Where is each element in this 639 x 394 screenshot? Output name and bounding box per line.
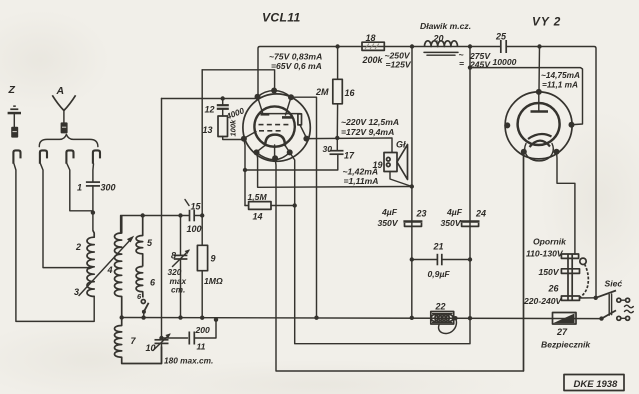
value 320 max cm xyxy=(168,267,187,295)
junction x470 on bus xyxy=(468,316,472,320)
svg-text:~14,75mA: ~14,75mA xyxy=(541,70,580,80)
svg-text:Opornik: Opornik xyxy=(533,237,567,247)
tube VCL11 grid dashes row2 xyxy=(259,130,281,132)
tube VY2 inner bulb xyxy=(518,103,560,145)
label 15 with tick xyxy=(185,200,202,212)
capacitor C23 xyxy=(403,222,422,227)
svg-text:19: 19 xyxy=(373,160,383,170)
earth symbol Z xyxy=(8,105,21,127)
tube VCL11 pin bottom-center xyxy=(272,155,278,161)
junction cap17 top xyxy=(335,136,339,140)
svg-text:350V: 350V xyxy=(378,218,399,228)
svg-text:10: 10 xyxy=(146,343,156,353)
svg-text:=65V 0,6 mA: =65V 0,6 mA xyxy=(271,61,322,71)
wire screen pin to right vertical xyxy=(291,97,317,317)
tube VCL11 inner bulb xyxy=(254,106,294,146)
tube VCL11 envelope outer xyxy=(243,94,310,161)
junction below C1 xyxy=(91,210,95,214)
capacitor C12 xyxy=(217,99,229,117)
svg-text:100k: 100k xyxy=(229,119,238,137)
junction VY2 anode top xyxy=(537,44,541,48)
junction resistor 16 top xyxy=(335,44,339,48)
tuning coil (tapped) left column xyxy=(115,216,122,318)
tube VY2 pin right xyxy=(569,122,575,128)
socket 4 xyxy=(93,150,100,163)
junction coil7 top on bus xyxy=(120,315,124,319)
tube VY2 pin top xyxy=(536,89,542,95)
svg-text:27: 27 xyxy=(556,327,568,337)
grid feed vertical wire xyxy=(161,99,163,340)
junction speaker bottom on x412 xyxy=(410,184,414,188)
svg-text:2M: 2M xyxy=(315,87,329,97)
tube VCL11 pentode anode bar xyxy=(282,116,292,119)
speaker bottom lead xyxy=(390,172,412,187)
tube VCL11 top pin connector arc xyxy=(258,91,292,98)
plug of earth lead xyxy=(11,127,18,138)
svg-text:4µF: 4µF xyxy=(381,207,398,217)
resistor R16 xyxy=(333,47,343,138)
main chassis bus wire xyxy=(122,318,602,319)
wire pentode pin down to row y344 xyxy=(290,47,470,344)
tube VY2 anode bar xyxy=(531,92,549,112)
capacitor C1 xyxy=(86,182,100,230)
trimmer capacitor 10 xyxy=(153,333,171,363)
tube VCL11 pin top-center xyxy=(271,88,277,94)
svg-text:0,9µF: 0,9µF xyxy=(428,269,451,279)
antenna A xyxy=(52,95,75,122)
resistor R14 xyxy=(245,202,297,210)
svg-text:~220V 12,5mA: ~220V 12,5mA xyxy=(341,117,399,127)
svg-text:150V: 150V xyxy=(539,267,560,277)
svg-text:VY 2: VY 2 xyxy=(532,15,561,29)
anode wire row y138 to speaker xyxy=(306,138,392,152)
wire grid pin down to cap17 row xyxy=(244,139,245,206)
tube VCL11 grid lead from top-right pin xyxy=(286,97,292,115)
junction x470 rectifier output row xyxy=(468,65,472,69)
voltage note 275V xyxy=(459,50,492,70)
capacitor C17 xyxy=(330,138,344,154)
junction grid row y170 xyxy=(243,168,247,172)
tube VCL11 pin right xyxy=(303,136,309,142)
brace over antenna sockets xyxy=(39,134,98,146)
mains switch upper lever xyxy=(596,291,616,298)
coil L7 xyxy=(115,318,162,364)
svg-text:100: 100 xyxy=(187,224,202,234)
grid coupling line (cap 15 row) xyxy=(121,216,189,234)
coil L6 xyxy=(136,267,143,298)
svg-text:3: 3 xyxy=(74,287,79,297)
wire VY2 heater left down xyxy=(523,152,525,371)
tube VCL11 triode anode bar xyxy=(261,113,301,116)
plug of antenna lead xyxy=(61,122,68,133)
svg-text:21: 21 xyxy=(433,242,444,252)
grid top feed wire (row y98.5) xyxy=(162,98,258,100)
tube VY2 envelope outer xyxy=(505,92,572,159)
svg-text:1MΩ: 1MΩ xyxy=(204,276,223,286)
band switch 6' contact xyxy=(141,300,145,304)
svg-text:DKE 1938: DKE 1938 xyxy=(574,379,619,390)
band switch 6' lever xyxy=(142,303,149,318)
svg-text:1,5M: 1,5M xyxy=(248,192,268,202)
svg-text:11: 11 xyxy=(197,342,206,352)
coil 22 xyxy=(431,312,458,334)
junction switch on bus xyxy=(141,315,145,319)
svg-text:Z: Z xyxy=(8,84,16,96)
coil L5 xyxy=(136,216,143,267)
svg-text:Dławik m.cz.: Dławik m.cz. xyxy=(420,21,471,31)
resistor R18 xyxy=(362,42,384,50)
tube VCL11 cathode lead xyxy=(274,145,276,158)
svg-text:=11,1 mA: =11,1 mA xyxy=(542,80,578,90)
svg-text:=: = xyxy=(459,59,464,69)
junction x412 on bus xyxy=(410,316,414,320)
capacitor C21 row xyxy=(412,254,470,265)
svg-text:9: 9 xyxy=(211,254,216,264)
tube VY2 bottom skirt xyxy=(525,144,554,161)
svg-text:cm.: cm. xyxy=(171,285,185,295)
mains switch lower lever xyxy=(599,310,616,320)
tube VCL11 cathode dome xyxy=(265,135,285,145)
tube VY2 pin left xyxy=(504,122,510,128)
fuse 27 xyxy=(553,313,577,325)
tube VCL11 bottom skirt xyxy=(257,152,290,159)
mains switch link bars xyxy=(609,294,611,315)
svg-text:22: 22 xyxy=(435,302,446,312)
AC symbol xyxy=(625,305,634,313)
resistor R9 xyxy=(197,70,207,320)
mains plug contacts lower xyxy=(617,316,630,320)
resistor R13 xyxy=(218,116,242,140)
socket 1 (Z) xyxy=(13,150,20,163)
tap arrowhead at coil 2/3 xyxy=(89,266,94,270)
wire triode-grid-pin down to y187 row xyxy=(257,152,412,187)
tube VCL11 anode lead from top-left pin xyxy=(258,97,263,113)
svg-text:24: 24 xyxy=(475,209,486,219)
svg-text:220-240V: 220-240V xyxy=(523,296,563,306)
svg-text:4µF: 4µF xyxy=(446,207,463,217)
svg-text:12: 12 xyxy=(205,105,215,115)
svg-text:200: 200 xyxy=(195,325,211,335)
junction mains switch upper xyxy=(594,296,598,300)
tube VCL11 grid lead left xyxy=(245,132,257,139)
svg-text:2: 2 xyxy=(75,242,81,252)
junction x412 cap21 row xyxy=(410,257,414,261)
socket 3 xyxy=(66,150,73,163)
tube VY2 cathode arcs xyxy=(528,134,552,147)
tube VCL11 pin bottom-left xyxy=(254,149,260,155)
svg-text:=1,11mA: =1,11mA xyxy=(344,176,379,186)
junction cap12 top xyxy=(221,96,225,100)
tube VCL11 heater lead right xyxy=(285,145,290,152)
wire socket2 down to coil tap xyxy=(41,164,91,268)
capacitor 15 xyxy=(190,210,203,222)
svg-text:16: 16 xyxy=(345,88,356,98)
svg-text:Sieć: Sieć xyxy=(605,279,623,289)
junction x470 cap21 row xyxy=(468,257,472,261)
tube VCL11 heater lead left xyxy=(257,145,266,152)
svg-text:4: 4 xyxy=(107,265,113,275)
wire VY2 heater right to dropper xyxy=(557,152,575,255)
junction x412 top xyxy=(410,44,414,48)
wire socket1 down and bottom of input loop xyxy=(14,164,94,322)
DKE 1938 stamp box xyxy=(564,375,624,391)
svg-text:18: 18 xyxy=(366,33,376,43)
wire cathode pin down to heater row y371 xyxy=(275,151,523,372)
svg-text:~75V 0,83mA: ~75V 0,83mA xyxy=(269,52,322,62)
svg-text:26: 26 xyxy=(548,284,560,294)
resistor R18 inner hatch xyxy=(365,44,379,50)
top B+ bus wire xyxy=(258,47,501,98)
svg-text:17: 17 xyxy=(344,151,355,161)
junction screen wire on bus xyxy=(314,316,318,320)
capacitor C25 xyxy=(501,40,596,298)
dropper resistor 26 (Opornik) xyxy=(561,254,588,300)
wire x412 vertical xyxy=(411,47,413,318)
value 4uF 350V (24) xyxy=(441,207,463,228)
svg-text:300: 300 xyxy=(101,183,116,193)
wire y69.8 row to tube top pin xyxy=(202,70,274,90)
tube VCL11 pin bottom-right xyxy=(287,149,293,155)
choke 20 xyxy=(424,41,458,55)
junction coil5 top xyxy=(141,213,145,217)
svg-text:6’: 6’ xyxy=(137,292,144,301)
svg-text:200k: 200k xyxy=(362,55,384,65)
svg-text:23: 23 xyxy=(416,209,427,219)
wire dropper to mains switch xyxy=(580,297,596,299)
svg-text:15: 15 xyxy=(191,202,202,212)
mains plug contacts upper xyxy=(617,298,630,302)
svg-text:=125V: =125V xyxy=(386,60,412,70)
tube VCL11 pin top-left xyxy=(255,94,261,100)
svg-text:A: A xyxy=(56,85,65,97)
coil L2/L3 xyxy=(87,231,94,297)
coupling arrow 4 xyxy=(79,236,134,296)
svg-text:350V: 350V xyxy=(441,218,462,228)
svg-text:=172V 9,4mA: =172V 9,4mA xyxy=(341,127,394,137)
capacitor C24 xyxy=(461,222,480,227)
svg-text:8: 8 xyxy=(171,251,176,261)
wire VY2 anode feed xyxy=(538,47,541,91)
wire socket3 down then right to below capacitor 1 xyxy=(67,164,93,211)
value 4uF 350V (23) xyxy=(378,207,399,228)
trimmer capacitor 8 xyxy=(173,213,191,319)
svg-text:14: 14 xyxy=(253,212,263,222)
tube VY2 pin bottom-right xyxy=(554,149,560,155)
svg-text:Bezpiecznik: Bezpiecznik xyxy=(541,340,591,350)
tube VCL11 pin left xyxy=(241,136,247,142)
wire socket4 down to capacitor 1 xyxy=(92,164,95,182)
svg-text:10000: 10000 xyxy=(493,57,517,67)
svg-text:1: 1 xyxy=(77,183,82,193)
capacitor 11 xyxy=(159,318,218,345)
tube VCL11 grid dashes row1 xyxy=(259,124,289,126)
svg-text:110-130V: 110-130V xyxy=(526,249,564,259)
rectifier output row y67.6 xyxy=(470,68,583,125)
tube VY2 pin bottom-left xyxy=(521,149,527,155)
junction x470 top bus xyxy=(468,44,472,48)
svg-text:13: 13 xyxy=(203,125,213,135)
tube VCL11 pin top-right xyxy=(288,94,294,100)
wire y170 row to capacitor 17 xyxy=(245,154,338,170)
speaker 19 xyxy=(384,145,408,180)
tube VCL11 anode side lead xyxy=(298,114,306,137)
svg-text:30: 30 xyxy=(323,144,333,154)
socket 2 xyxy=(40,150,47,163)
svg-text:VCL11: VCL11 xyxy=(262,11,301,25)
svg-text:180 max.cm.: 180 max.cm. xyxy=(164,356,213,366)
